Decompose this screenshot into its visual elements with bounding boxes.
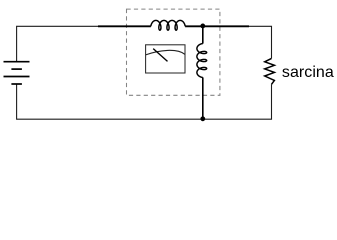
node junction dot bottom bbox=[200, 116, 205, 121]
battery B1 long plate 2 bbox=[4, 76, 30, 78]
svg-text:sarcina: sarcina bbox=[282, 64, 334, 81]
inductor L1 left lead bbox=[98, 25, 151, 27]
resistor R1 (load) zigzag bbox=[265, 58, 275, 84]
wire top-left (battery plus to inductor) bbox=[17, 26, 98, 61]
inductor L1 coil bbox=[151, 20, 185, 30]
battery B1 long plate 1 bbox=[4, 61, 30, 63]
battery B1 short plate 1 bbox=[11, 68, 22, 70]
inductor L1 right lead bbox=[185, 25, 249, 27]
meter M1 needle bbox=[153, 49, 167, 62]
inductor L2 coil bbox=[197, 44, 207, 78]
inductor L2 top lead bbox=[202, 26, 204, 43]
meter M1 case bbox=[146, 45, 185, 73]
meter M1 scale arc bbox=[146, 50, 185, 55]
inductor L2 bottom lead bbox=[202, 77, 204, 119]
battery B1 short plate 2 bbox=[11, 83, 22, 85]
wire top-right (inductor to load) bbox=[249, 26, 272, 58]
node junction dot top bbox=[200, 24, 205, 29]
wire bottom (battery minus to load) bbox=[17, 84, 272, 119]
dashed enclosure box bbox=[127, 9, 220, 95]
